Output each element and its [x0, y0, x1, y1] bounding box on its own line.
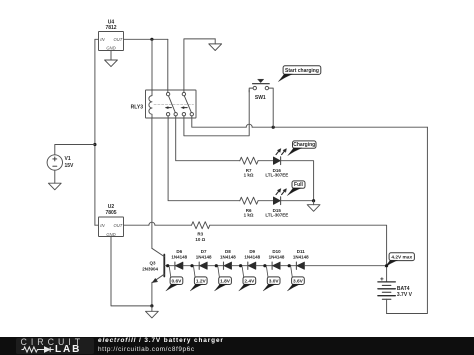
ground U4: [105, 60, 118, 67]
LED D15 light arrows: [276, 189, 286, 195]
relay RLY3 switch pole 2: [181, 92, 194, 116]
wire relay ground stem: [214, 39, 216, 44]
svg-text:SW1: SW1: [255, 95, 266, 101]
LED D16: [265, 157, 288, 178]
svg-text:1.2V: 1.2V: [196, 278, 207, 284]
wire relay throw1b to R7 row: [176, 116, 240, 161]
diode D10 1N4148: [269, 249, 285, 270]
LED D16 light arrows: [276, 149, 286, 155]
wire D7 to D8: [207, 265, 223, 267]
svg-text:2.4V: 2.4V: [244, 278, 255, 284]
svg-text:LTL-307EE: LTL-307EE: [265, 173, 288, 178]
diode D6 1N4148: [171, 249, 187, 270]
annotation 3.0V: [263, 267, 280, 291]
wire Q3 collector to relay coil: [151, 118, 153, 248]
svg-text:3.6V: 3.6V: [293, 278, 304, 284]
wire U4 OUT to relay pin 1 top: [124, 39, 168, 92]
wire Q3 emitter down: [151, 282, 153, 306]
wire U2 OUT to R3: [124, 222, 192, 225]
svg-text:0.6V: 0.6V: [172, 278, 183, 284]
node junction V1 / rail: [93, 143, 96, 146]
ground LED rows: [307, 205, 320, 212]
resistor R7: [240, 157, 258, 177]
svg-text:4.2V max: 4.2V max: [391, 254, 412, 260]
wire U4 GND down: [110, 51, 112, 61]
voltage regulator U4 7812: [99, 19, 124, 50]
annotation 1.8V: [214, 267, 231, 291]
node probe 3.6V: [288, 264, 291, 267]
annotation 0.6V: [166, 267, 183, 291]
diode D9 1N4148: [244, 249, 260, 270]
annotation Charging: [288, 141, 316, 156]
wire rail to U2 IN: [95, 224, 99, 226]
svg-text:Full: Full: [294, 182, 303, 188]
annotation 4.2V max: [385, 253, 415, 267]
wire D10 to D11: [280, 265, 296, 267]
svg-text:RLY3: RLY3: [131, 104, 144, 110]
svg-text:D7: D7: [201, 249, 207, 254]
svg-text:D8: D8: [225, 249, 231, 254]
wire left rail: [94, 39, 96, 225]
diode D8 1N4148: [220, 249, 236, 270]
relay RLY3 box: [131, 90, 196, 118]
LED D15: [265, 197, 288, 218]
relay dashed link: [154, 104, 194, 106]
resistor R6: [240, 197, 258, 217]
svg-text:IN: IN: [100, 37, 105, 42]
wire U2 GND to emitter node: [111, 237, 152, 306]
svg-text:IN: IN: [100, 223, 105, 228]
svg-text:1N4148: 1N4148: [244, 255, 260, 260]
node junction U4 OUT / coil: [150, 38, 153, 41]
svg-text:D10: D10: [272, 249, 281, 254]
node junction LED rows: [312, 199, 315, 202]
annotation 2.4V: [239, 267, 256, 291]
wire D16 to LED ground rail: [281, 161, 314, 201]
wire relay throw1a to R6 row: [168, 116, 240, 201]
svg-text:1.8V: 1.8V: [220, 278, 231, 284]
svg-text:1 kΩ: 1 kΩ: [244, 213, 254, 218]
svg-text:Q3: Q3: [149, 261, 156, 266]
node probe 3.0V: [263, 264, 266, 267]
resistor R3: [192, 222, 210, 243]
svg-text:3.0V: 3.0V: [269, 278, 280, 284]
svg-text:Start charging: Start charging: [285, 68, 319, 74]
wire relay pole2 top to ground: [184, 39, 215, 93]
logo resistor-diode art: [16, 337, 94, 355]
wire SW1 left terminal: [249, 88, 253, 92]
wire R3 to battery node: [210, 225, 387, 282]
relay RLY3 coil: [149, 90, 152, 118]
svg-text:7812: 7812: [105, 25, 116, 31]
diode D7 1N4148: [196, 249, 212, 270]
voltage source V1 15V: [47, 155, 74, 170]
ground relay pole 2: [209, 44, 222, 51]
voltage regulator U2 7805: [99, 204, 124, 237]
node probe 2.4V: [239, 264, 242, 267]
wire Q3 ground stem: [151, 306, 153, 311]
svg-text:1N4148: 1N4148: [171, 255, 187, 260]
ground V1: [48, 183, 61, 190]
wire SW1 right terminal: [269, 88, 274, 127]
svg-text:GND: GND: [106, 46, 115, 51]
svg-text:R3: R3: [197, 232, 203, 237]
ground Q3 emitter: [146, 311, 159, 318]
wire LED ground stem: [313, 201, 315, 205]
node probe 1.8V: [215, 264, 218, 267]
wire D15 to LED ground rail: [281, 200, 314, 202]
battery BAT4 3.7V: [378, 278, 413, 300]
wire D6 to D7: [183, 265, 199, 267]
wire relay coil top to U4 OUT: [151, 39, 153, 90]
node junction SW1 right / charging line: [272, 126, 275, 129]
svg-text:2N3904: 2N3904: [142, 267, 158, 272]
svg-text:V1: V1: [65, 156, 71, 162]
svg-text:10 Ω: 10 Ω: [195, 237, 205, 242]
annotation 1.2V: [190, 267, 207, 291]
svg-text:1N4148: 1N4148: [293, 255, 309, 260]
svg-text:15V: 15V: [65, 163, 75, 169]
footer bar: [0, 337, 474, 355]
svg-text:LTL-307EE: LTL-307EE: [265, 213, 288, 218]
node junction diode string / battery: [385, 264, 388, 267]
svg-text:1N4148: 1N4148: [196, 255, 212, 260]
svg-text:3.7V V: 3.7V V: [397, 292, 413, 298]
svg-text:OUT: OUT: [113, 223, 122, 228]
wire V1 plus to rail: [55, 145, 95, 155]
relay RLY3 switch pole 1: [165, 92, 177, 116]
svg-text:D11: D11: [297, 249, 306, 254]
svg-text:1 kΩ: 1 kΩ: [244, 173, 254, 178]
svg-text:7805: 7805: [105, 210, 116, 216]
wire R7 to D16: [258, 160, 273, 162]
svg-text:D6: D6: [176, 249, 182, 254]
annotation 3.6V: [287, 267, 304, 291]
annotation Start charging: [278, 66, 321, 82]
wire Q3 base to diode string: [164, 265, 175, 267]
pushbutton switch SW1: [253, 79, 270, 101]
transistor Q3 2N3904: [142, 248, 164, 282]
wire V1 minus down: [54, 170, 56, 183]
node probe 1.2V: [190, 264, 193, 267]
wire D9 to D10: [256, 265, 272, 267]
annotation Full: [287, 181, 305, 196]
diode D11 1N4148: [293, 249, 309, 270]
wire D8 to D9: [232, 265, 248, 267]
svg-text:D9: D9: [249, 249, 255, 254]
node junction emitter / U2 GND: [150, 304, 153, 307]
wire D11 to battery node: [305, 265, 387, 267]
node probe 0.6V: [166, 264, 169, 267]
svg-text:Charging: Charging: [293, 142, 315, 148]
svg-text:1N4148: 1N4148: [220, 255, 236, 260]
wire relay throw2a to SW1 left: [184, 90, 249, 136]
svg-text:OUT: OUT: [113, 37, 122, 42]
wire battery bottom: [386, 299, 388, 313]
wire relay throw2b to battery return (charging line): [192, 116, 428, 127]
svg-text:1N4148: 1N4148: [269, 255, 285, 260]
wire right edge down: [387, 127, 428, 313]
wire R6 to D15: [258, 200, 273, 202]
wire U4 IN to left rail: [95, 38, 99, 40]
